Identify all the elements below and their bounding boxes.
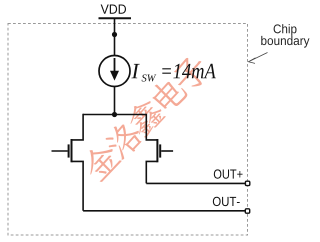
- chip boundary dashed rectangle: [8, 24, 248, 236]
- transistor M2 gate bar: [159, 144, 161, 157]
- VDD label: [101, 5, 126, 14]
- watermark text 金洛鑫电子: [78, 50, 213, 185]
- value label subscript SW: [142, 74, 157, 81]
- watermark char dian: [147, 73, 189, 115]
- wire to M1 drain: [72, 114, 84, 140]
- wire to M2 drain: [146, 114, 157, 140]
- value label I (of I_SW): [131, 64, 139, 78]
- common source horizontal wire: [83, 114, 146, 116]
- junction dot on VDD wire: [112, 32, 117, 37]
- junction dot common node: [112, 112, 117, 117]
- OUT- label: [213, 197, 240, 206]
- watermark char jin: [78, 138, 123, 183]
- Chip boundary label line 2: [261, 36, 309, 48]
- transistor M1 gate lead: [52, 150, 68, 152]
- transistor M2 channel: [156, 139, 158, 162]
- watermark char luo: [101, 117, 146, 162]
- watermark char xin: [123, 94, 168, 139]
- OUT+ terminal port: [245, 181, 249, 185]
- transistor M1 channel: [71, 139, 73, 162]
- wire M2 source down: [146, 161, 157, 183]
- wire OUT+ horizontal: [146, 182, 245, 184]
- value label =14mA: [162, 64, 216, 79]
- wire M1 source down: [72, 161, 84, 210]
- transistor M1 gate bar: [68, 144, 70, 157]
- Chip boundary label line 1: [274, 24, 297, 36]
- current source I_SW (circle): [99, 56, 130, 87]
- transistor M2 gate lead: [161, 150, 173, 152]
- current source arrow: [114, 58, 116, 73]
- wire VDD to current source: [114, 18, 116, 55]
- OUT+ label: [214, 169, 243, 178]
- watermark char zi: [169, 52, 213, 96]
- wire current source to common node: [114, 87, 116, 115]
- leader arrow to boundary: [250, 53, 268, 62]
- OUT- terminal port: [245, 209, 249, 213]
- VDD power bar: [99, 17, 132, 19]
- wire OUT- horizontal: [83, 210, 245, 212]
